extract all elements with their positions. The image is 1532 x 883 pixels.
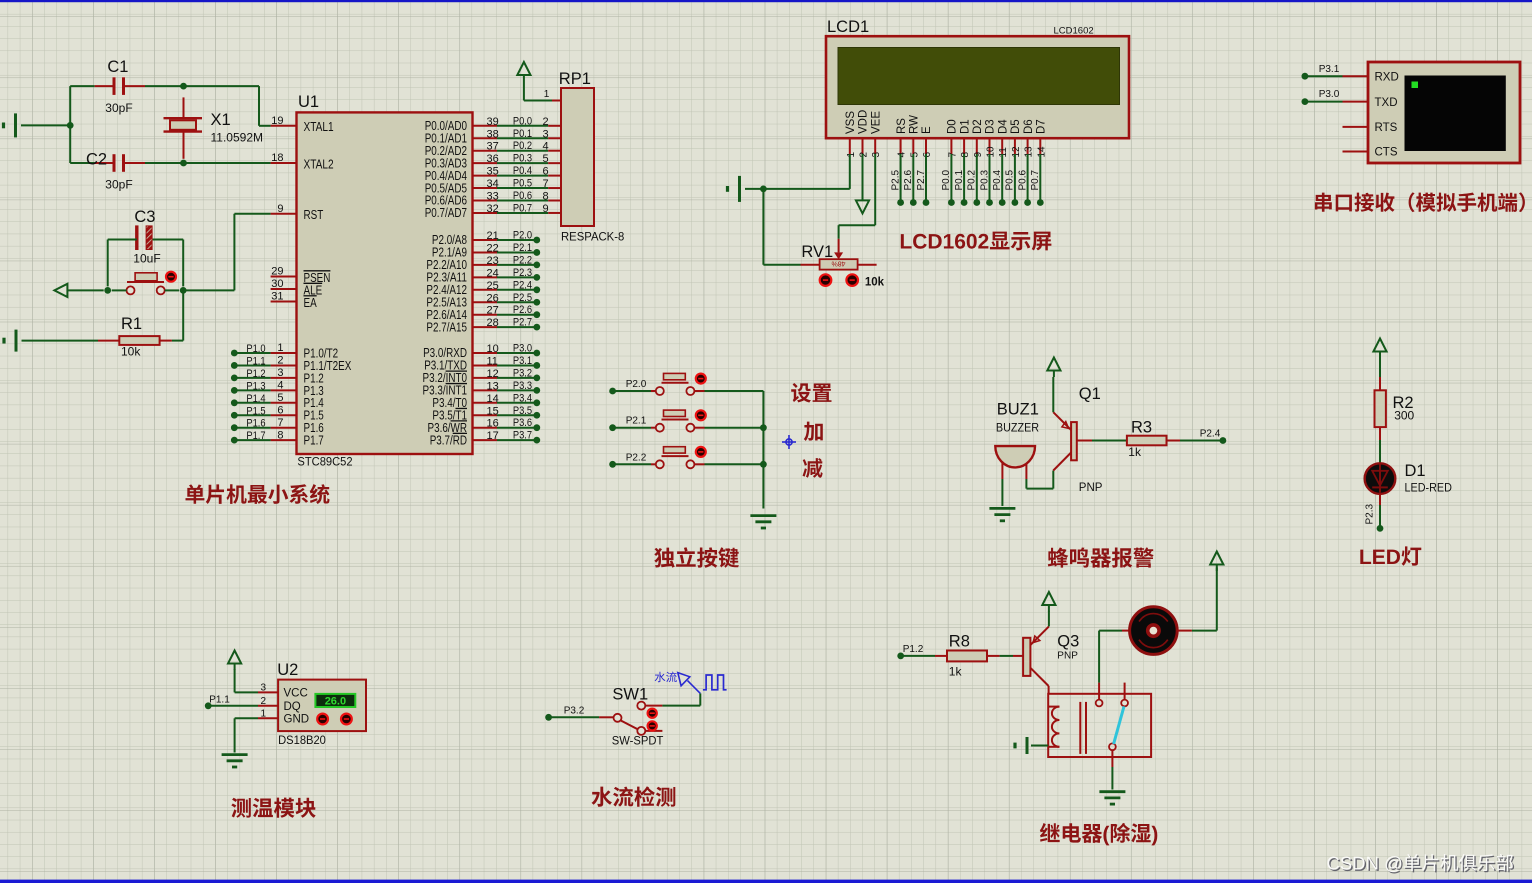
svg-text:CTS: CTS [1375,147,1398,159]
svg-text:P2.1: P2.1 [513,242,532,254]
svg-text:1: 1 [277,342,283,354]
svg-text:R8: R8 [949,633,970,651]
svg-text:11.0592M: 11.0592M [211,131,263,145]
svg-text:P0.0: P0.0 [941,169,952,190]
svg-text:RESPACK-8: RESPACK-8 [561,230,625,244]
svg-text:21: 21 [487,230,499,242]
svg-text:LCD1: LCD1 [827,18,869,36]
svg-text:P1.2: P1.2 [903,644,924,655]
svg-text:P0.5: P0.5 [1005,169,1016,190]
svg-text:P3.0: P3.0 [513,343,532,355]
svg-text:7: 7 [277,417,283,429]
svg-text:P2.6: P2.6 [903,169,914,190]
svg-text:VEE: VEE [870,111,882,134]
svg-text:X1: X1 [211,111,231,129]
svg-text:P1.5: P1.5 [246,405,265,417]
svg-text:23: 23 [487,255,499,267]
svg-text:C3: C3 [134,208,155,226]
svg-text:300: 300 [1394,409,1414,423]
svg-text:13: 13 [487,380,499,392]
svg-text:2: 2 [260,696,266,707]
svg-text:Q3: Q3 [1057,633,1079,651]
svg-text:Q1: Q1 [1079,385,1101,403]
svg-text:P2.4: P2.4 [1200,429,1221,440]
svg-text:48%: 48% [831,260,845,267]
svg-text:P2.7: P2.7 [513,317,532,329]
svg-text:P0.5: P0.5 [513,178,532,190]
svg-text:P3.4: P3.4 [513,392,532,404]
svg-text:33: 33 [487,191,499,203]
svg-text:P2.2: P2.2 [513,254,532,266]
svg-text:6: 6 [277,404,283,416]
svg-text:P1.2: P1.2 [246,368,265,380]
svg-text:30pF: 30pF [105,101,132,115]
svg-text:5: 5 [277,392,283,404]
svg-text:DQ: DQ [284,701,301,713]
svg-text:PNP: PNP [1079,482,1103,494]
svg-text:6: 6 [922,152,933,158]
svg-text:RV1: RV1 [801,243,833,261]
svg-text:P3.2: P3.2 [513,367,532,379]
svg-text:D1: D1 [1405,462,1426,480]
svg-text:P2.6: P2.6 [513,304,532,316]
svg-text:P2.7/A15: P2.7/A15 [426,320,467,334]
svg-text:P3.3: P3.3 [513,380,532,392]
svg-text:P3.7/RD: P3.7/RD [430,433,467,447]
svg-text:P0.2: P0.2 [513,140,532,152]
svg-text:P2.2: P2.2 [626,452,647,463]
svg-text:14: 14 [487,393,499,405]
svg-text:P2.5: P2.5 [513,292,532,304]
svg-text:1: 1 [846,152,857,158]
svg-text:STC89C52: STC89C52 [297,455,352,469]
svg-text:P0.4: P0.4 [992,169,1003,190]
svg-text:P0.6: P0.6 [513,190,532,202]
svg-text:RTS: RTS [1375,122,1398,134]
svg-text:GND: GND [284,714,310,726]
svg-text:30pF: 30pF [105,178,132,192]
svg-text:P1.6: P1.6 [246,418,265,430]
svg-text:D0: D0 [947,119,959,134]
svg-text:D4: D4 [997,119,1009,134]
svg-text:1: 1 [544,89,550,100]
svg-text:2: 2 [277,355,283,367]
svg-text:30: 30 [271,278,283,290]
svg-text:P1.0: P1.0 [246,343,265,355]
svg-text:SW1: SW1 [612,686,648,704]
svg-text:13: 13 [1024,146,1035,158]
svg-text:36: 36 [487,153,499,165]
svg-text:15: 15 [487,405,499,417]
svg-text:27: 27 [487,305,499,317]
svg-text:29: 29 [271,266,283,278]
svg-text:39: 39 [487,116,499,128]
svg-text:PNP: PNP [1057,651,1078,662]
svg-text:P2.3: P2.3 [1365,503,1376,524]
svg-text:P2.7: P2.7 [916,169,927,190]
svg-text:P2.5: P2.5 [890,169,901,190]
svg-text:SW-SPDT: SW-SPDT [612,734,664,748]
svg-text:E: E [921,126,933,134]
svg-text:9: 9 [277,203,283,215]
svg-text:R1: R1 [121,315,142,333]
svg-text:2: 2 [543,116,549,128]
svg-text:4: 4 [897,152,908,158]
svg-text:10: 10 [487,343,499,355]
svg-text:P0.0: P0.0 [513,115,532,127]
svg-text:LED-RED: LED-RED [1405,481,1453,495]
svg-text:D3: D3 [985,119,997,134]
svg-text:R3: R3 [1131,419,1152,437]
svg-text:D5: D5 [1010,119,1022,134]
svg-text:38: 38 [487,128,499,140]
svg-text:9: 9 [543,203,549,215]
svg-text:U1: U1 [298,93,319,111]
svg-text:P2.1: P2.1 [626,416,647,427]
svg-text:D7: D7 [1036,119,1048,134]
svg-text:37: 37 [487,141,499,153]
svg-text:EA: EA [304,296,318,310]
svg-text:P0.4: P0.4 [513,165,532,177]
svg-text:D1: D1 [959,119,971,134]
svg-text:P1.1: P1.1 [209,695,230,706]
svg-text:19: 19 [271,115,283,127]
svg-text:P3.5: P3.5 [513,405,532,417]
svg-text:P0.1: P0.1 [513,128,532,140]
svg-text:P0.3: P0.3 [979,169,990,190]
svg-text:8: 8 [277,429,283,441]
svg-text:P1.4: P1.4 [246,393,265,405]
svg-text:26.0: 26.0 [325,696,346,708]
svg-text:34: 34 [487,178,499,190]
svg-text:8: 8 [543,191,549,203]
svg-text:10: 10 [986,146,997,158]
svg-text:P0.7: P0.7 [1030,169,1041,190]
svg-text:1k: 1k [1128,445,1142,459]
svg-text:7: 7 [947,152,958,158]
svg-text:35: 35 [487,166,499,178]
svg-text:22: 22 [487,242,499,254]
svg-text:16: 16 [487,418,499,430]
svg-text:RS: RS [896,118,908,134]
svg-text:P0.3: P0.3 [513,153,532,165]
svg-text:P1.3: P1.3 [246,380,265,392]
svg-text:P0.7/AD7: P0.7/AD7 [425,206,467,220]
svg-text:P2.0: P2.0 [513,230,532,242]
svg-text:12: 12 [1011,146,1022,158]
svg-text:BUZ1: BUZ1 [997,401,1039,419]
svg-text:TXD: TXD [1375,97,1398,109]
svg-text:1: 1 [260,708,266,719]
svg-text:DS18B20: DS18B20 [278,733,326,747]
svg-text:XTAL2: XTAL2 [304,157,334,171]
svg-text:RXD: RXD [1375,71,1399,83]
svg-text:P0.1: P0.1 [954,169,965,190]
svg-text:3: 3 [871,152,882,158]
svg-text:24: 24 [487,267,499,279]
svg-text:P1.7: P1.7 [246,430,265,442]
svg-text:P0.7: P0.7 [513,202,532,214]
svg-text:3: 3 [543,128,549,140]
svg-text:12: 12 [487,368,499,380]
svg-text:17: 17 [487,430,499,442]
svg-text:26: 26 [487,292,499,304]
svg-text:RW: RW [909,115,921,134]
svg-text:RST: RST [304,208,324,222]
svg-text:11: 11 [998,147,1009,158]
svg-text:9: 9 [973,152,984,158]
svg-text:5: 5 [543,153,549,165]
svg-text:P3.6: P3.6 [513,417,532,429]
svg-text:RP1: RP1 [559,70,591,88]
svg-text:C1: C1 [107,58,128,76]
svg-text:D6: D6 [1023,119,1035,134]
svg-text:2: 2 [859,152,870,158]
svg-text:3: 3 [260,682,266,693]
svg-text:28: 28 [487,317,499,329]
svg-text:1k: 1k [949,665,963,679]
svg-text:P3.1: P3.1 [1319,64,1340,75]
svg-text:LCD1602: LCD1602 [1054,26,1094,37]
svg-text:10k: 10k [121,345,141,359]
svg-text:P0.6: P0.6 [1017,169,1028,190]
svg-text:P2.4: P2.4 [513,279,532,291]
svg-text:4: 4 [543,141,549,153]
svg-text:25: 25 [487,280,499,292]
svg-text:11: 11 [487,355,498,367]
svg-text:5: 5 [909,152,920,158]
svg-text:P3.0: P3.0 [1319,89,1340,100]
svg-text:U2: U2 [277,661,298,679]
svg-text:P3.7: P3.7 [513,430,532,442]
svg-text:P2.0: P2.0 [626,379,647,390]
svg-text:7: 7 [543,178,549,190]
svg-text:18: 18 [271,152,283,164]
svg-text:10k: 10k [865,277,885,289]
svg-text:VSS: VSS [845,111,857,134]
svg-text:C2: C2 [86,151,107,169]
svg-text:BUZZER: BUZZER [996,421,1040,435]
svg-text:10uF: 10uF [133,252,160,266]
svg-text:VCC: VCC [284,688,308,700]
svg-text:P1.1: P1.1 [246,355,265,367]
svg-text:32: 32 [487,203,499,215]
svg-text:P2.3: P2.3 [513,267,532,279]
svg-text:3: 3 [277,367,283,379]
svg-text:P0.2: P0.2 [967,169,978,190]
svg-text:VDD: VDD [858,110,870,134]
svg-text:31: 31 [271,291,283,303]
svg-text:6: 6 [543,166,549,178]
svg-text:8: 8 [960,152,971,158]
svg-text:14: 14 [1036,146,1047,158]
svg-text:D2: D2 [972,119,984,134]
svg-text:XTAL1: XTAL1 [304,120,334,134]
svg-text:4: 4 [277,380,283,392]
svg-text:P3.2: P3.2 [564,706,585,717]
svg-text:P1.7: P1.7 [304,434,324,448]
svg-text:P3.1: P3.1 [513,355,532,367]
